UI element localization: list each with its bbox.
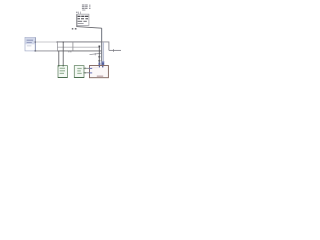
G1 text rows bbox=[60, 68, 65, 74]
wire H3 (lower horizontal net) bbox=[35, 50, 57, 52]
wire H2 (very faint middle net) bbox=[57, 46, 99, 48]
wire from U2 bottom-left pin going right bbox=[77, 25, 102, 28]
small corner mark left of U2 top bbox=[76, 12, 78, 13]
G2 bottom edge dark bbox=[74, 77, 84, 79]
IC U2 (top box) bbox=[77, 14, 89, 25]
header label text block above U2 bbox=[82, 5, 90, 11]
wire H1 light continuation and bend down bbox=[102, 42, 109, 51]
wire G2 pin1 to A1 bbox=[85, 67, 90, 69]
A1 left pin marks bbox=[89, 68, 92, 69]
G1 pin tips bbox=[57, 65, 60, 67]
M1 right edge pin tick bbox=[35, 41, 36, 43]
M1 header text bbox=[27, 40, 33, 43]
sensor G2 (right green box) bbox=[74, 66, 84, 78]
G1 bottom edge dark bbox=[58, 77, 67, 79]
sensor G1 (left green box) bbox=[58, 66, 67, 78]
M1 body faint text bbox=[27, 44, 32, 47]
vertical wire to G1 pin2 bbox=[62, 42, 64, 66]
short diagonal wire into cluster bbox=[90, 53, 102, 54]
junction ticks on H3 bbox=[68, 51, 70, 53]
U2 internal text rows bbox=[78, 16, 89, 24]
vertical link V57 H1-H3 bbox=[56, 42, 58, 51]
A1 bottom label text bbox=[97, 76, 103, 77]
net label marks under wire bbox=[72, 28, 74, 29]
vertical link V72 H1-H3 bbox=[72, 42, 74, 51]
wire H1 main segment bbox=[57, 41, 101, 43]
wire H1 left light segment bbox=[35, 41, 57, 43]
pin blobs above A1 bbox=[99, 61, 105, 65]
vertical wire V103 (light blue) bbox=[102, 42, 104, 62]
module M1 (left box) bbox=[25, 37, 35, 51]
U2 left edge darker bbox=[76, 14, 78, 25]
vertical wire to G1 pin1 bbox=[58, 51, 60, 66]
M1 header band bbox=[25, 38, 35, 45]
pin tick marks on stub wires bbox=[84, 68, 86, 70]
junction tick on H4 bbox=[112, 49, 114, 52]
vertical wire V101 down to module A1 bbox=[101, 28, 103, 65]
A1 interior top streak bbox=[91, 66, 98, 69]
pin ticks on top of U2 bbox=[78, 12, 80, 15]
junction dot on V99 bbox=[99, 46, 101, 48]
M1 bottom-right junction bbox=[35, 50, 37, 51]
module A1 (red box) bbox=[90, 66, 109, 78]
wire H4 to right edge bbox=[109, 49, 121, 51]
vertical wire V99 (dark) bbox=[98, 46, 100, 66]
wire G2 pin2 to A1 bbox=[85, 72, 90, 74]
G2 text rows bbox=[77, 68, 81, 74]
junction dot on H1 bbox=[57, 41, 58, 42]
G2 right pin nubs bbox=[84, 68, 85, 69]
